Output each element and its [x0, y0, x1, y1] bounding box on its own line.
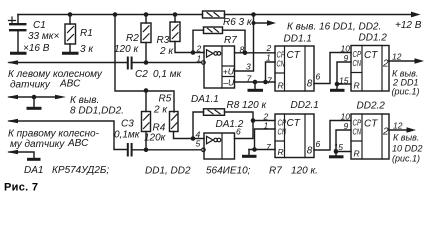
- capacitor C2: [128, 57, 132, 70]
- svg-text:2 к: 2 к: [159, 46, 174, 57]
- ground sensor common: [27, 97, 42, 108]
- node C2 R2: [144, 60, 149, 65]
- svg-text:7: 7: [266, 142, 271, 152]
- svg-text:му датчику: му датчику: [10, 139, 65, 150]
- svg-text:1: 1: [197, 54, 202, 64]
- label K vyv 8 DD1 DD2: [70, 95, 124, 117]
- svg-text:15: 15: [339, 76, 349, 86]
- svg-text:0,1 мк: 0,1 мк: [153, 69, 183, 80]
- label C2 0,1 mk: [135, 69, 183, 80]
- svg-text:×16 В: ×16 В: [23, 43, 50, 54]
- svg-text:АВС: АВС: [67, 138, 89, 149]
- svg-text:R: R: [278, 81, 284, 91]
- svg-text:DA1: DA1: [24, 165, 43, 176]
- svg-text:К выв.: К выв.: [70, 95, 99, 106]
- wire left wheel sensor input: [9, 62, 128, 64]
- svg-text:CT: CT: [364, 119, 378, 130]
- resistor R7 feedback: [193, 27, 245, 53]
- svg-text:12: 12: [392, 52, 402, 62]
- svg-text:8: 8: [307, 79, 313, 90]
- label K vyv 10 DD2: [392, 133, 423, 164]
- svg-text:R8 120 к: R8 120 к: [227, 100, 268, 111]
- wire CN pin1 DD2.1: [255, 129, 276, 150]
- arrowhead output 12 bottom: [407, 127, 417, 133]
- svg-text:CT: CT: [287, 50, 301, 61]
- wire branch arrow K vyv 16: [254, 22, 269, 24]
- svg-text:DD1, DD2: DD1, DD2: [145, 166, 191, 177]
- node rail bias: [113, 12, 118, 17]
- label to left wheel sensor ABS: [8, 69, 103, 91]
- ground -U DA1.1: [248, 82, 264, 90]
- wire sensor common with ground: [9, 96, 60, 98]
- wire DD1.2 output 12: [389, 60, 415, 62]
- svg-text:33 мк×: 33 мк×: [28, 31, 59, 42]
- svg-text:–U: –U: [222, 78, 235, 88]
- svg-text:DD2.2: DD2.2: [357, 101, 386, 112]
- svg-text:120 к: 120 к: [114, 44, 139, 55]
- svg-text:К выв. 16 DD1, DD2.: К выв. 16 DD1, DD2.: [287, 22, 381, 33]
- svg-text:К левому колесному: К левому колесному: [8, 69, 103, 80]
- label R3 2k: [157, 35, 175, 57]
- wire R pin7 DD2.1: [249, 149, 275, 151]
- counter DD2.1: [275, 114, 314, 158]
- counter DD1.2: [351, 46, 389, 92]
- svg-text:0,1мк: 0,1мк: [114, 130, 141, 141]
- svg-text:3: 3: [246, 62, 251, 72]
- svg-text:10 DD2: 10 DD2: [392, 144, 423, 154]
- svg-text:2: 2: [382, 59, 389, 70]
- svg-text:К выв.: К выв.: [393, 133, 419, 143]
- node pin2 R7: [191, 50, 196, 55]
- wire CN9 DD2.2: [336, 130, 351, 152]
- arrowhead to pin8 right: [55, 95, 66, 99]
- node rail R1: [68, 12, 73, 17]
- capacitor C1: [9, 15, 27, 53]
- node bias R4: [144, 88, 149, 93]
- capacitor C3: [128, 143, 132, 157]
- wire R15 DD2.2: [336, 151, 351, 153]
- ground C1: [10, 52, 27, 55]
- svg-text:R: R: [354, 81, 360, 91]
- counter DD1.1: [275, 46, 314, 91]
- node rail R2: [144, 12, 149, 17]
- label R5 2k: [153, 94, 172, 116]
- svg-text:12: 12: [393, 121, 403, 131]
- node C3 R4: [144, 148, 149, 153]
- svg-text:R7: R7: [269, 166, 282, 177]
- svg-text:(рис.1): (рис.1): [392, 87, 420, 97]
- svg-text:120к: 120к: [144, 133, 167, 144]
- resistor R3: [170, 15, 204, 53]
- label C1 value: [23, 20, 59, 54]
- arrowhead left sensor: [7, 60, 18, 64]
- svg-text:CN: CN: [353, 127, 362, 137]
- arrowhead K vyv 16: [267, 20, 276, 25]
- svg-text:1: 1: [266, 53, 271, 63]
- svg-text:6: 6: [236, 127, 241, 137]
- svg-text:8: 8: [307, 146, 313, 157]
- wire DA1.1 output to DD1.1 CP: [235, 52, 276, 54]
- wire DD1.1 out to DD1.2 CP: [314, 53, 351, 84]
- svg-text:7: 7: [267, 76, 272, 86]
- resistor R4: [142, 91, 151, 150]
- svg-text:датчику: датчику: [10, 80, 51, 91]
- arrowhead output 12: [415, 58, 425, 64]
- wire DD2.1 out to DD2.2 CP: [314, 121, 351, 151]
- svg-text:R3: R3: [157, 35, 170, 46]
- node rail R3: [173, 12, 178, 17]
- resistor R2: [141, 15, 151, 64]
- node output R7: [243, 51, 248, 56]
- svg-text:+12 В: +12 В: [395, 20, 422, 31]
- resistor R5: [170, 112, 194, 139]
- node ground -U: [253, 80, 258, 85]
- op-amp DA1.2: [202, 133, 235, 159]
- wire bias feed to R4 R5: [115, 15, 174, 113]
- counter DD2.2: [351, 114, 389, 159]
- svg-text:CN: CN: [353, 58, 362, 68]
- svg-text:2: 2: [266, 43, 272, 53]
- svg-text:R6 3 к: R6 3 к: [223, 17, 253, 28]
- resistor R1: [65, 15, 76, 53]
- label R1 3k: [80, 28, 94, 55]
- wire +U to rail: [235, 15, 254, 72]
- arrowhead right sensor common: [7, 150, 18, 154]
- svg-text:DD1.1: DD1.1: [284, 34, 312, 45]
- svg-text:CT: CT: [287, 118, 301, 129]
- wire DD2.2 output 12: [389, 129, 407, 131]
- svg-text:2: 2: [196, 44, 202, 54]
- svg-text:10: 10: [341, 44, 351, 54]
- wire R15 DD1.2: [337, 83, 351, 85]
- arrowhead right sensor: [7, 119, 18, 123]
- arrowhead +12V rail: [411, 12, 421, 18]
- svg-text:КР574УД2Б;: КР574УД2Б;: [52, 165, 109, 176]
- wire pin4 input: [193, 138, 204, 140]
- wire DA1.2 output: [235, 121, 276, 139]
- ground DD1.2: [330, 84, 345, 90]
- label K vyv 2 DD1: [392, 69, 420, 97]
- wire CN pin1 DD1.1: [266, 62, 276, 82]
- wire right wheel sensor input: [9, 121, 128, 150]
- wire C2 to op-amp pin 1: [133, 62, 202, 64]
- node rail supply branch: [251, 12, 256, 17]
- svg-text:8 DD1,DD2.: 8 DD1,DD2.: [70, 106, 124, 117]
- svg-text:С2: С2: [135, 69, 148, 80]
- resistor R6 in rail: [203, 11, 225, 18]
- ground DD2.2: [329, 152, 344, 157]
- wire CN9 DD1.2: [337, 62, 351, 84]
- svg-text:+U: +U: [223, 67, 235, 77]
- svg-text:2: 2: [382, 127, 389, 138]
- label to right wheel sensor ABS: [8, 129, 100, 151]
- wire -U ground line to DD1.1 R: [235, 81, 276, 83]
- svg-text:DD1.2: DD1.2: [359, 33, 388, 44]
- svg-text:С3: С3: [121, 119, 134, 130]
- node pin4 R8: [191, 136, 196, 141]
- svg-text:R7: R7: [224, 35, 237, 46]
- ground R1: [62, 52, 79, 55]
- label C3 0,1 mk: [114, 119, 141, 141]
- node CN R DD2.2: [334, 149, 339, 154]
- svg-text:R: R: [278, 147, 284, 157]
- svg-text:10: 10: [341, 112, 351, 122]
- arrowhead common left: [7, 95, 18, 99]
- svg-text:2 к: 2 к: [153, 105, 168, 116]
- wire right sensor common: [9, 152, 34, 158]
- svg-text:R1: R1: [80, 28, 93, 39]
- svg-text:R5: R5: [159, 94, 172, 105]
- ground DD2.1 R: [242, 150, 257, 157]
- node CN R DD1.2: [335, 82, 340, 87]
- svg-text:9: 9: [344, 53, 349, 63]
- node output R8: [251, 118, 256, 123]
- svg-text:R2: R2: [126, 33, 139, 44]
- resistor R8: [193, 109, 253, 139]
- svg-text:120 к.: 120 к.: [291, 166, 318, 177]
- svg-text:6: 6: [316, 139, 321, 149]
- ground right sensor common: [27, 158, 41, 161]
- svg-text:Рис. 7: Рис. 7: [4, 182, 38, 194]
- wire +12V top rail: [18, 14, 412, 16]
- svg-text:CN: CN: [278, 127, 287, 137]
- node CN ground: [263, 80, 268, 85]
- svg-text:(рис.1): (рис.1): [392, 154, 420, 164]
- node CN R DD2.1: [252, 147, 257, 152]
- op-amp DA1.1: [202, 46, 235, 88]
- svg-text:АВС: АВС: [59, 79, 81, 90]
- label R2 120k: [114, 33, 139, 55]
- label R4 120k: [144, 123, 167, 144]
- svg-text:R: R: [354, 149, 360, 159]
- svg-text:CT: CT: [364, 50, 378, 61]
- svg-text:DA1.1: DA1.1: [191, 94, 219, 105]
- svg-text:9: 9: [344, 121, 349, 131]
- svg-text:3 к: 3 к: [80, 44, 94, 55]
- svg-text:564ИЕ10;: 564ИЕ10;: [206, 166, 251, 177]
- svg-text:С1: С1: [33, 20, 46, 31]
- svg-text:CN: CN: [277, 59, 286, 69]
- wire C3 to op-amp pin 5: [133, 149, 202, 151]
- svg-text:5: 5: [196, 139, 201, 149]
- svg-text:DD2.1: DD2.1: [291, 100, 319, 111]
- svg-text:6: 6: [316, 72, 321, 82]
- node sensor common ground: [32, 95, 37, 100]
